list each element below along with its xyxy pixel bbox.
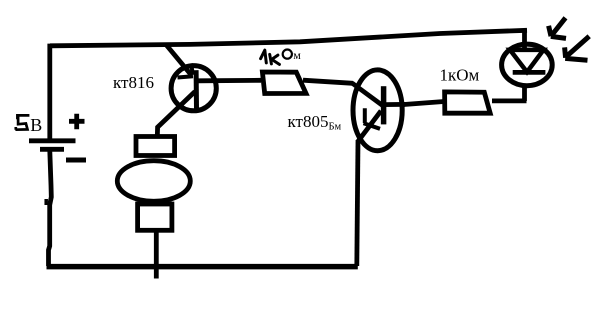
svg-text:кт805Бм: кт805Бм [288, 112, 342, 132]
wire top rail [50, 30, 527, 46]
transistor Q1 кт816 base lead to R1 [198, 78, 261, 83]
LED D1 circle [502, 44, 553, 86]
battery B1 negative plate [40, 147, 64, 152]
transistor Q1 кт816 emitter lead [166, 44, 192, 75]
transistor Q2 base inner diagonal [352, 83, 383, 106]
battery + sign [69, 114, 85, 130]
battery − sign [66, 158, 86, 163]
wire LED cathode drop [522, 86, 527, 101]
wire Q2 emitter down [357, 140, 358, 266]
label 5В [15, 115, 29, 130]
wire joint nub on left rail [44, 199, 48, 205]
label R1 1к handwritten [261, 50, 280, 64]
transistor Q1 кт816 base bar [194, 70, 199, 108]
transistor Q2 кт805бм ellipse [353, 70, 402, 151]
LED D1 cathode bar [513, 70, 546, 75]
wire bottom rail [47, 264, 358, 270]
light arrow lower [565, 36, 590, 60]
label R1 О circle [283, 50, 292, 59]
LED D1 triangle [510, 50, 544, 72]
svg-text:м: м [293, 48, 301, 62]
svg-text:кт816: кт816 [113, 73, 154, 92]
transistor Q2 collector lead [384, 102, 406, 107]
light arrow upper [549, 18, 566, 39]
svg-text:В: В [30, 115, 42, 135]
transistor Q1 кт816 emitter arrowhead [178, 64, 194, 78]
motor M1 bottom terminal block [138, 204, 172, 230]
motor M1 top terminal block [136, 137, 175, 156]
wire left rail lower [49, 151, 52, 266]
resistor R2 body [445, 92, 491, 113]
transistor Q2 base bar [381, 86, 387, 124]
wire Q2 collector to R2 [404, 102, 444, 105]
wire R1 to Q2 base [303, 80, 353, 83]
wire R2 to LED cathode [492, 99, 527, 104]
resistor R1 body [262, 72, 306, 94]
motor M1 body ellipse [117, 161, 190, 202]
transistor Q2 emitter lead [358, 111, 381, 142]
battery B1 positive plate [29, 138, 76, 143]
wire LED anode drop [522, 29, 527, 49]
transistor Q1 кт816 collector lead [157, 92, 195, 137]
wire motor to bottom rail [154, 228, 159, 279]
wire left rail upper [47, 44, 52, 139]
transistor Q2 emitter arrowhead [364, 108, 381, 129]
svg-text:1кОм: 1кОм [440, 66, 480, 85]
transistor Q1 кт816 circle [171, 66, 216, 111]
